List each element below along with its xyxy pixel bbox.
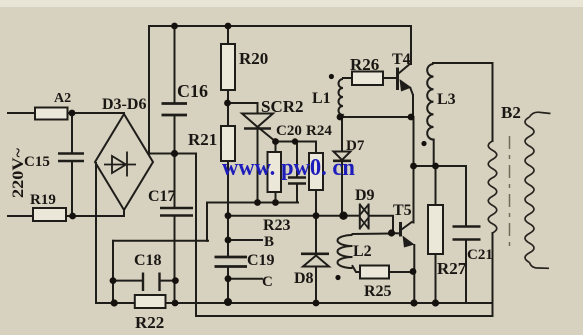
svg-text:D9: D9 — [355, 187, 375, 204]
svg-text:A2: A2 — [54, 91, 71, 106]
transistor T4 — [398, 63, 414, 117]
junction R24 / R23 wire — [313, 212, 320, 219]
wire R23a bottom stub — [275, 192, 277, 203]
wire R26 to T4 base — [383, 77, 398, 79]
wire T5 collector column — [413, 117, 415, 223]
bridge inner diode — [104, 152, 136, 177]
transformer secondary winding B2 — [525, 117, 534, 262]
svg-text:B: B — [264, 234, 274, 250]
capacitor C18 — [113, 273, 176, 292]
junction D8 / bottom rail — [313, 300, 320, 307]
svg-text:R24: R24 — [306, 123, 332, 139]
svg-text:C17: C17 — [148, 188, 176, 205]
phase dot L1 — [329, 74, 334, 79]
wire gate node horizontal — [276, 141, 317, 143]
wire C17 column bottom — [174, 216, 176, 303]
thyristor SCR2 — [242, 114, 273, 129]
wire C18 box top — [113, 240, 208, 242]
capacitor C15 — [58, 154, 84, 162]
junction R25 / T5 emitter column — [410, 268, 417, 275]
svg-text:C16: C16 — [177, 81, 208, 101]
junction top rail / C16 column — [171, 23, 178, 30]
junction T5 collector / L3 wire — [410, 163, 417, 170]
wire horizontal L3 bottom to C21 — [414, 165, 467, 167]
wire R23 horizontal — [228, 215, 344, 217]
wire C21 top column — [465, 166, 467, 227]
junction R27 / bottom rail — [432, 299, 439, 306]
wire node to SCR anode — [227, 103, 258, 114]
junction T5 base node — [388, 229, 395, 236]
wire AC input top with A2 — [8, 112, 124, 114]
wire C18 box left — [112, 241, 114, 303]
wire bottom return rail lower — [196, 315, 493, 317]
wire R27 top stub — [435, 166, 437, 205]
svg-text:D3-D6: D3-D6 — [102, 96, 146, 113]
junction SCR gate node — [272, 138, 279, 145]
svg-text:B2: B2 — [501, 103, 521, 122]
junction D7 cathode / R23 wire / D9 — [339, 212, 347, 220]
wire L2 top lead — [353, 233, 392, 236]
junction C18 right / C17 column — [172, 277, 179, 284]
wire D7 column bottom — [341, 161, 343, 216]
junction T5 emitter / bottom rail — [410, 299, 417, 306]
junction T4 emitter / wire — [408, 114, 415, 121]
wire node A horizontal — [207, 202, 298, 204]
resistor R19 — [33, 208, 66, 221]
wire T5 base node to base — [392, 232, 401, 235]
svg-text:D8: D8 — [294, 270, 314, 287]
wire R25 right to emitter column — [389, 271, 414, 273]
junction R20 / R21 / SCR anode — [224, 100, 231, 107]
wire D8 cathode to rail — [315, 267, 317, 304]
junction R21 column / terminal B wire — [225, 237, 232, 244]
wire D9 right to T5 base node — [371, 216, 394, 233]
svg-text:SCR2: SCR2 — [261, 97, 304, 116]
junction SCR cathode / node A — [254, 199, 261, 206]
wire C19 bottom column to rail — [227, 267, 229, 303]
svg-text:R27: R27 — [437, 259, 467, 278]
wire D9 left — [344, 215, 358, 217]
wire L3 top to winding — [433, 62, 493, 64]
wire R23a top stub — [275, 142, 277, 153]
svg-text:R25: R25 — [364, 283, 392, 300]
svg-text:C: C — [262, 274, 273, 290]
junction C19 column / bottom rail — [224, 298, 232, 306]
junction L1 bottom / D7 — [337, 114, 344, 121]
diode D7 — [333, 152, 351, 161]
svg-text:C18: C18 — [134, 252, 162, 269]
svg-text:T4: T4 — [392, 51, 411, 68]
capacitor C17 — [160, 208, 193, 216]
svg-text:L2: L2 — [353, 243, 372, 260]
diac D9 — [360, 204, 369, 230]
inductor L2 — [338, 235, 353, 268]
junction C20 top — [292, 138, 298, 144]
svg-text:R21: R21 — [188, 130, 217, 149]
wire R21 column — [227, 103, 229, 126]
wire bridge output to C16/C17 node — [149, 153, 196, 155]
junction C19 / terminal C wire — [225, 275, 232, 282]
wire bridge bottom vertex stub — [123, 210, 125, 216]
svg-text:C19: C19 — [247, 252, 275, 269]
junction L3 bottom / R27 — [432, 163, 439, 170]
capacitor C21 — [453, 227, 481, 240]
wire left vertical from top rail to bridge output — [148, 26, 150, 155]
transistor T5 — [401, 222, 415, 248]
wire secondary top lead — [530, 112, 551, 117]
resistor R26 — [352, 72, 383, 86]
phase dot L2 — [335, 275, 340, 280]
wire secondary bottom lead — [530, 263, 550, 269]
wire C15 vertical top — [71, 113, 73, 154]
wire terminal B — [228, 239, 262, 241]
svg-text:www. pw0. cn: www. pw0. cn — [222, 155, 355, 181]
svg-text:220V~: 220V~ — [10, 147, 27, 198]
wire C20 bottom — [296, 184, 298, 203]
wire winding lead vertical right — [492, 233, 494, 316]
wire winding top lead vertical — [492, 63, 494, 141]
bridge rectifier D3-D6 diamond — [95, 114, 153, 210]
wire bridge negative down — [95, 163, 97, 303]
wire right descender positive return — [195, 154, 197, 317]
capacitor C16 — [162, 104, 188, 116]
junction AC bottom / C15 — [69, 213, 76, 220]
wire L2 bottom to R25 — [353, 266, 361, 272]
wire R24 bottom to R23 wire — [315, 190, 317, 216]
wire C20 top — [296, 142, 298, 178]
svg-text:D7: D7 — [346, 138, 365, 154]
inductor L1 — [339, 79, 344, 115]
junction box left / bottom rail — [111, 299, 118, 306]
capacitor C20 — [288, 178, 306, 184]
wire C16 column top — [174, 26, 176, 103]
wire terminal C stub — [228, 278, 262, 280]
wire T4 collector column — [410, 26, 412, 64]
wire R24 column to D8 — [315, 216, 317, 254]
resistor R21 — [221, 126, 235, 161]
svg-text:R19: R19 — [30, 192, 56, 208]
resistor R23 body — [268, 152, 282, 192]
resistor R24 — [309, 153, 323, 190]
wire C21 bottom column — [465, 240, 467, 304]
wire AC input bottom with R19 — [8, 215, 124, 217]
svg-text:C21: C21 — [467, 247, 493, 263]
junction R22 right / bottom rail — [172, 300, 179, 307]
resistor R20 — [221, 44, 235, 90]
junction top rail / R20 — [225, 23, 232, 30]
svg-text:R23: R23 — [263, 217, 291, 234]
wire R20 bottom to node — [227, 90, 229, 103]
svg-text:T5: T5 — [393, 202, 412, 219]
svg-text:L1: L1 — [312, 90, 331, 107]
fuse A2 — [35, 108, 68, 120]
svg-text:L3: L3 — [437, 91, 456, 108]
wire R26 left to L1 top — [343, 77, 352, 79]
junction R23 body / node A — [272, 199, 279, 206]
phase dot L3 — [421, 141, 426, 146]
wire R20 top stub — [227, 26, 229, 44]
svg-text:R22: R22 — [135, 313, 164, 332]
inductor L3 — [427, 64, 433, 140]
wire C16-C17 column middle — [174, 116, 176, 207]
junction AC top / C15 — [69, 110, 76, 117]
wire D7 column top — [341, 117, 343, 151]
junction R21 column / R23 wire — [225, 212, 232, 219]
wire T5 emitter column down — [413, 245, 415, 303]
svg-text:C15: C15 — [24, 154, 50, 170]
wire top rail — [149, 25, 411, 27]
diode D8 — [301, 254, 329, 267]
wire L3 bottom lead — [433, 140, 435, 167]
wire R21 bottom column to C19 — [227, 161, 229, 256]
resistor R27 — [428, 205, 443, 254]
wire staircase node A down — [206, 203, 208, 241]
svg-text:C20: C20 — [276, 123, 302, 139]
svg-text:R26: R26 — [350, 55, 379, 74]
svg-text:R20: R20 — [239, 49, 268, 68]
wire C15 vertical bottom — [71, 161, 73, 216]
resistor R25 — [360, 266, 389, 279]
wire R24 top stub — [315, 142, 317, 154]
wire bottom rail (negative) right of R22 — [166, 302, 493, 304]
transformer primary winding — [488, 141, 497, 233]
junction bridge output / C16-C17 — [171, 150, 178, 157]
capacitor C19 — [215, 257, 248, 267]
transformer core — [509, 136, 511, 248]
junction C18 left — [110, 277, 117, 284]
wire SCR gate diagonal — [259, 128, 276, 142]
wire R27 bottom stub — [435, 254, 437, 303]
resistor R22 — [135, 295, 166, 308]
wire SCR cathode down — [257, 129, 259, 203]
wire bottom rail (negative) left of R22 — [96, 302, 135, 304]
wire L1 bottom rail — [338, 116, 414, 118]
